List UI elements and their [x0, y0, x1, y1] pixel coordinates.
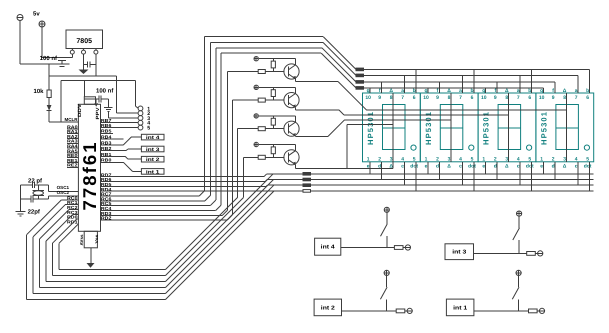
mcu U3 16f877 body [78, 104, 100, 231]
svg-text:int 4: int 4 [321, 244, 336, 251]
svg-text:c: c [517, 163, 520, 169]
transistor Q4 [284, 150, 299, 165]
svg-text:5v: 5v [33, 11, 40, 18]
display anode vertical module3 [508, 93, 510, 162]
svg-text:4: 4 [459, 156, 462, 162]
svg-text:a: a [575, 88, 578, 94]
resistor pad segment f [356, 81, 364, 84]
pin RB4 stub [101, 138, 124, 140]
svg-text:AVss: AVss [79, 234, 84, 246]
wire RB1 to int2 box [101, 156, 126, 158]
wire Vss to ground [90, 248, 92, 263]
svg-text:1: 1 [425, 156, 428, 162]
wire RD0 loop to Q4 base [77, 218, 79, 220]
svg-text:g: g [540, 88, 543, 94]
stub segment g display3 [485, 88, 487, 93]
wire RC7 to top loop [101, 195, 200, 197]
diode D1 [47, 105, 52, 111]
wire RD3 to Q1 base [101, 214, 223, 216]
svg-text:MCLR: MCLR [65, 117, 79, 122]
stub segment g display2 [427, 88, 429, 93]
svg-text:5: 5 [528, 156, 531, 162]
pin circles of 7805 [71, 49, 73, 51]
+5v rail [49, 75, 116, 77]
stub segment c display4 [577, 162, 579, 185]
svg-text:5: 5 [471, 156, 474, 162]
svg-text:3: 3 [505, 156, 508, 162]
svg-text:b: b [528, 88, 531, 94]
capacitor C5 22pf [30, 196, 32, 203]
wire Q4 collector supply [259, 144, 296, 146]
wire RD7 segment e line [101, 176, 264, 178]
stub segment e display3 [485, 162, 487, 174]
net box int 2 [314, 299, 341, 316]
svg-text:100 nf: 100 nf [96, 88, 114, 95]
svg-text:c: c [459, 163, 462, 169]
terminal J1 minus (input supply -) [17, 15, 23, 21]
svg-text:3: 3 [563, 156, 566, 162]
wire J1- down to ground rail [19, 21, 21, 64]
wire MCLR net [49, 121, 78, 123]
display U4 digit outline [383, 105, 406, 150]
switch SW int 3 lower contact [518, 240, 520, 253]
svg-text:int 2: int 2 [321, 304, 335, 311]
switch SW int 3 pole [518, 216, 520, 228]
display U5 digit outline [440, 105, 463, 150]
switch SW int 2 pole [386, 276, 388, 288]
wire C3 to ground [107, 99, 109, 108]
wire RD2 to Q2 base [101, 219, 228, 221]
display U5 HP5301 body [420, 93, 478, 162]
transistor Q1 [284, 64, 299, 79]
wire int 1 box to switch [474, 310, 519, 312]
display anode vertical module1 [392, 93, 394, 168]
terminal +5v int 1 [516, 270, 521, 275]
resistor int 2 [396, 309, 405, 313]
VPP arrow [94, 103, 98, 107]
svg-text:7: 7 [517, 95, 520, 101]
bus line segment f [364, 81, 555, 83]
stub segment b display1 [415, 69, 417, 93]
resistor R1 10k [47, 90, 51, 98]
resistor segment c [303, 184, 311, 187]
net box int 4 [315, 238, 341, 255]
svg-text:a: a [401, 88, 404, 94]
wire rail down to 10k [48, 64, 50, 90]
wire 7805 output pin down to +5v rail [95, 54, 97, 76]
stub segment e display2 [427, 162, 429, 174]
svg-text:dot: dot [468, 163, 476, 169]
svg-text:7: 7 [459, 95, 462, 101]
net box int 1 [446, 299, 474, 316]
svg-text:8: 8 [448, 95, 451, 101]
svg-text:1: 1 [482, 156, 485, 162]
display anode vertical module4 [565, 93, 567, 162]
svg-text:7: 7 [575, 95, 578, 101]
svg-text:a: a [517, 88, 520, 94]
wire RB0 to int1 box [101, 161, 124, 163]
stub segment c display3 [519, 162, 521, 185]
svg-text:Δ: Δ [563, 163, 567, 169]
wire Q2 collector up [295, 87, 297, 93]
stub segment dot display1 [415, 162, 417, 191]
svg-text:Vss: Vss [94, 234, 99, 244]
svg-text:e: e [425, 163, 428, 169]
wire OSC1 net [49, 190, 79, 192]
net box int 3 [141, 146, 164, 152]
wire Q4 collector up [295, 145, 297, 151]
net box int 1 [141, 169, 164, 175]
U3 bottom notch (Vss) [84, 231, 97, 248]
svg-text:g: g [367, 88, 370, 94]
net box int 2 [141, 156, 164, 162]
svg-text:3: 3 [390, 156, 393, 162]
terminal +5v for Q1 [254, 57, 258, 61]
stub segment a display1 [404, 75, 406, 93]
svg-text:3: 3 [448, 156, 451, 162]
svg-text:7805: 7805 [76, 38, 92, 45]
svg-text:b: b [413, 88, 416, 94]
wire RC5 to top loop [101, 205, 211, 207]
display U6 digit outline [498, 105, 520, 150]
svg-text:2: 2 [436, 156, 439, 162]
resistor R (base) Q3 [258, 127, 265, 131]
display U4 HP5301 body [363, 93, 421, 162]
wire RD5 segment c line [101, 185, 267, 187]
resistor pad segment b [356, 68, 364, 71]
wire int 2 box to switch [342, 310, 387, 312]
wire Q3 collector supply [259, 115, 296, 117]
svg-text:10k: 10k [33, 88, 44, 95]
wire OSC2 net [49, 195, 79, 197]
terminal +5v for Q2 [254, 85, 258, 89]
display U5 decimal point [469, 145, 474, 150]
stub segment f display3 [496, 82, 498, 93]
svg-text:8: 8 [390, 95, 393, 101]
svg-text:HP5301: HP5301 [539, 111, 548, 145]
svg-text:int 4: int 4 [146, 135, 160, 141]
terminal minus int 4 [405, 245, 410, 250]
resistor int 1 [529, 309, 538, 313]
switch SW int 1 arm [512, 287, 519, 299]
ground symbol crystal [16, 211, 26, 213]
svg-text:10: 10 [423, 95, 429, 101]
terminal minus int 1 [539, 308, 544, 313]
connector J3 pin circles [138, 106, 143, 111]
switch SW int 2 lower contact [386, 299, 388, 311]
svg-text:c: c [401, 163, 404, 169]
svg-text:778f61: 778f61 [79, 143, 100, 211]
wire ground to connector pin 3 [107, 112, 109, 119]
regulator U2 7805 [66, 30, 103, 49]
wire RC2 loop to segment d [69, 209, 78, 211]
wire RD4 segment dot line [101, 190, 268, 192]
resistor segment dot [303, 190, 311, 193]
svg-text:g: g [424, 88, 427, 94]
wire RC0 loop to segment dot [61, 199, 78, 201]
wire display1 anode line [347, 124, 393, 126]
resistor int 3 [527, 252, 536, 256]
stub segment b display3 [531, 69, 533, 93]
wire Q1 emitter to display4 anode line [295, 78, 297, 81]
stub segment dot display4 [588, 162, 590, 191]
svg-text:9: 9 [494, 95, 497, 101]
svg-text:e: e [540, 163, 543, 169]
wire RB7 to connector pin 4 [101, 122, 139, 124]
display U4 decimal point [411, 145, 416, 150]
wire VPP to connector pin 1 [134, 81, 136, 107]
svg-text:dot: dot [526, 163, 534, 169]
resistor R (base) Q2 [258, 98, 265, 102]
stub segment c display2 [461, 162, 463, 185]
capacitor C2 (output, horizontal) [84, 64, 88, 66]
capacitor C1 100 nf (input filter) [58, 57, 66, 59]
stub segment e display1 [369, 162, 371, 174]
net box int 4 [141, 134, 164, 140]
U3 top notch (power) [84, 97, 95, 105]
svg-text:PPV: PPV [95, 106, 100, 119]
wire int 3 box to switch [474, 252, 520, 254]
wire RB2 to int3 box [101, 150, 127, 152]
wire Q3 collector up [295, 116, 297, 122]
resistor pad segment a [356, 74, 364, 77]
wire Q3 emitter to display2 anode line [295, 135, 297, 138]
display U7 decimal point [584, 145, 589, 150]
svg-text:c: c [575, 163, 578, 169]
svg-text:1: 1 [367, 156, 370, 162]
capacitor C4 22pf [31, 181, 33, 188]
resistor R (pull, vertical) Q2 [272, 87, 274, 89]
wire Q1 collector supply [259, 58, 296, 60]
resistor segment d [303, 178, 311, 181]
svg-text:d: d [552, 163, 555, 169]
svg-text:d: d [494, 163, 497, 169]
svg-text:HP5301: HP5301 [482, 111, 491, 145]
svg-text:4: 4 [401, 156, 404, 162]
terminal minus int 2 [407, 308, 412, 313]
transistor Q2 [284, 93, 299, 108]
wire RD1 loop to Q3 base [59, 224, 78, 243]
wire tie vertical near display1 [346, 125, 348, 169]
svg-text:6: 6 [471, 95, 474, 101]
wire Q4 emitter to display1 anode (bottom feed) [295, 165, 297, 169]
svg-text:5: 5 [147, 126, 150, 132]
svg-text:e: e [482, 163, 485, 169]
resistor pad segment g [356, 87, 364, 90]
wire crystal ground [20, 185, 22, 212]
svg-text:HP5301: HP5301 [424, 111, 433, 145]
terminal +5v for Q4 [254, 142, 258, 146]
stub segment b display2 [473, 69, 475, 93]
display U7 digit outline [556, 105, 579, 150]
resistor R (base) Q1 [258, 70, 265, 74]
svg-text:100 nf: 100 nf [40, 55, 58, 62]
svg-text:HP5301: HP5301 [366, 111, 375, 145]
svg-text:22pf: 22pf [28, 209, 41, 216]
switch SW int 4 arm [381, 224, 388, 236]
transistor Q3 [284, 121, 299, 136]
wire rail down to MCLR net [60, 81, 62, 123]
wire Q1 collector up [295, 59, 297, 65]
stub segment a display4 [577, 75, 579, 93]
svg-text:dot: dot [584, 163, 592, 169]
svg-text:8: 8 [505, 95, 508, 101]
wire Q2 emitter to display3 anode line [295, 107, 297, 110]
wire D1 to MCLR [48, 111, 50, 122]
bus line segment a [364, 74, 578, 76]
rail VDD (second rail) [61, 80, 135, 82]
svg-text:int 1: int 1 [453, 304, 467, 311]
wire Q2 collector supply [259, 86, 296, 88]
svg-text:10: 10 [539, 95, 545, 101]
stub segment g display4 [542, 88, 544, 93]
wire RC6 to top loop [101, 200, 205, 202]
resistor R (pull, vertical) Q4 [272, 145, 274, 147]
stub segment b display4 [588, 69, 590, 93]
stub segment d display1 [381, 162, 383, 180]
stub segment d display4 [554, 162, 556, 180]
switch SW int 2 arm [380, 287, 387, 299]
svg-text:4: 4 [517, 156, 520, 162]
svg-text:5: 5 [413, 156, 416, 162]
bus line segment b [364, 68, 590, 70]
svg-text:22 pf: 22 pf [28, 178, 43, 185]
resistor segment e [303, 173, 311, 176]
stub segment d display3 [496, 162, 498, 180]
svg-text:9: 9 [552, 95, 555, 101]
wire +5v to connector pin 2 [115, 76, 117, 113]
switch SW int 1 lower contact [518, 299, 520, 311]
svg-text:7: 7 [401, 95, 404, 101]
resistor R (pull, vertical) Q1 [272, 59, 274, 61]
switch SW int 3 arm [513, 228, 520, 240]
wire RB6 to connector pin 5 [101, 126, 139, 128]
wire J2+ to 7805 input [41, 27, 43, 58]
svg-text:int 1: int 1 [146, 169, 160, 175]
wire RD6 segment d line [101, 181, 266, 183]
switch SW int 1 pole [518, 276, 520, 288]
stub segment f display4 [554, 82, 556, 93]
svg-text:5: 5 [586, 156, 589, 162]
terminal +5v for Q3 [254, 114, 258, 118]
svg-text:9: 9 [436, 95, 439, 101]
svg-text:1: 1 [540, 156, 543, 162]
stub segment c display1 [404, 162, 406, 185]
stub segment dot display3 [531, 162, 533, 191]
stub segment dot display2 [473, 162, 475, 191]
display U6 HP5301 body [478, 93, 536, 162]
stub segment g display1 [369, 88, 371, 93]
display anode vertical module2 [450, 93, 452, 162]
svg-text:dot: dot [410, 163, 418, 169]
terminal +5v int 3 [517, 211, 522, 216]
ground arrow under chip [87, 263, 95, 268]
svg-text:int 2: int 2 [146, 157, 160, 163]
svg-text:10: 10 [481, 95, 487, 101]
wire R1 to D1 [48, 98, 50, 106]
pin RB5 stub [101, 132, 114, 134]
stub segment d display2 [438, 162, 440, 180]
svg-text:g: g [482, 88, 485, 94]
stub segment f display1 [381, 82, 383, 93]
stub segment a display2 [461, 75, 463, 93]
wire RB3 to int4 box [101, 144, 124, 146]
bus line segment g [364, 87, 544, 89]
switch SW int 4 pole [386, 212, 388, 224]
stub segment a display3 [519, 75, 521, 93]
svg-text:10: 10 [365, 95, 371, 101]
resistor int 4 [394, 246, 403, 250]
stub segment e display4 [542, 162, 544, 174]
svg-text:6: 6 [413, 95, 416, 101]
wire RC1 loop to segment c [65, 204, 78, 206]
svg-text:4: 4 [575, 156, 578, 162]
wire 7805 gnd pin down [83, 54, 85, 69]
net box int 3 [445, 244, 474, 260]
svg-text:int 3: int 3 [452, 249, 466, 256]
svg-text:int 3: int 3 [146, 147, 160, 153]
wire int 4 box to switch [341, 247, 387, 249]
svg-text:DDV: DDV [77, 103, 82, 117]
svg-text:6: 6 [586, 95, 589, 101]
svg-text:b: b [470, 88, 473, 94]
svg-text:2: 2 [552, 156, 555, 162]
capacitor C3 100 nf (VDD decoupling) [84, 98, 99, 100]
svg-text:2: 2 [494, 156, 497, 162]
switch SW int 4 lower contact [386, 236, 388, 247]
svg-text:9: 9 [378, 95, 381, 101]
terminal minus int 3 [538, 251, 543, 256]
wire RC3 loop to segment e [73, 213, 79, 215]
svg-text:d: d [436, 163, 439, 169]
terminal J2 plus (input supply +, 5v) [39, 21, 45, 27]
wire RC4 to top loop [101, 210, 216, 212]
resistor R (pull, vertical) Q3 [272, 116, 274, 118]
ground symbol under 7805 [79, 70, 89, 75]
ground symbol near C3 [104, 107, 112, 109]
svg-text:Δ: Δ [447, 163, 451, 169]
wire 7805 input pin down [71, 54, 73, 57]
svg-text:a: a [459, 88, 462, 94]
resistor R (base) Q4 [258, 155, 265, 159]
terminal +5v int 2 [384, 270, 389, 275]
terminal +5v int 4 [384, 207, 389, 212]
svg-text:2: 2 [378, 156, 381, 162]
svg-text:8: 8 [563, 95, 566, 101]
svg-text:Δ: Δ [505, 163, 509, 169]
display U6 decimal point [527, 145, 532, 150]
svg-text:b: b [586, 88, 589, 94]
crystal X1 [38, 185, 40, 191]
display U7 HP5301 body [536, 93, 594, 162]
stub segment f display2 [438, 82, 440, 93]
svg-text:6: 6 [528, 95, 531, 101]
wire rail down to chip VDD notch [83, 81, 85, 97]
